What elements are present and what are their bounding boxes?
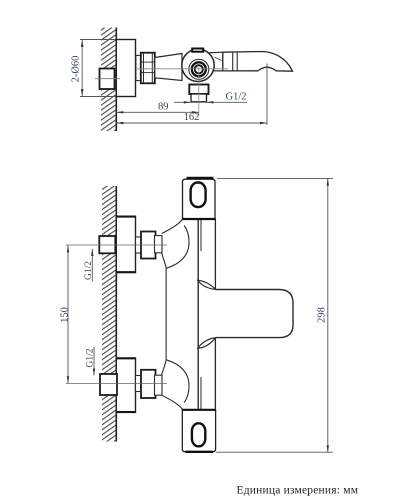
- svg-text:89: 89: [158, 101, 169, 112]
- svg-text:150: 150: [60, 307, 71, 323]
- svg-text:G1/2: G1/2: [226, 92, 247, 103]
- svg-text:G1/2: G1/2: [85, 348, 95, 367]
- svg-text:Единица измерения: мм: Единица измерения: мм: [237, 485, 359, 497]
- svg-text:2-Ø60: 2-Ø60: [70, 56, 81, 83]
- svg-text:298: 298: [317, 307, 328, 323]
- svg-text:162: 162: [184, 112, 200, 123]
- svg-text:G1/2: G1/2: [84, 261, 94, 280]
